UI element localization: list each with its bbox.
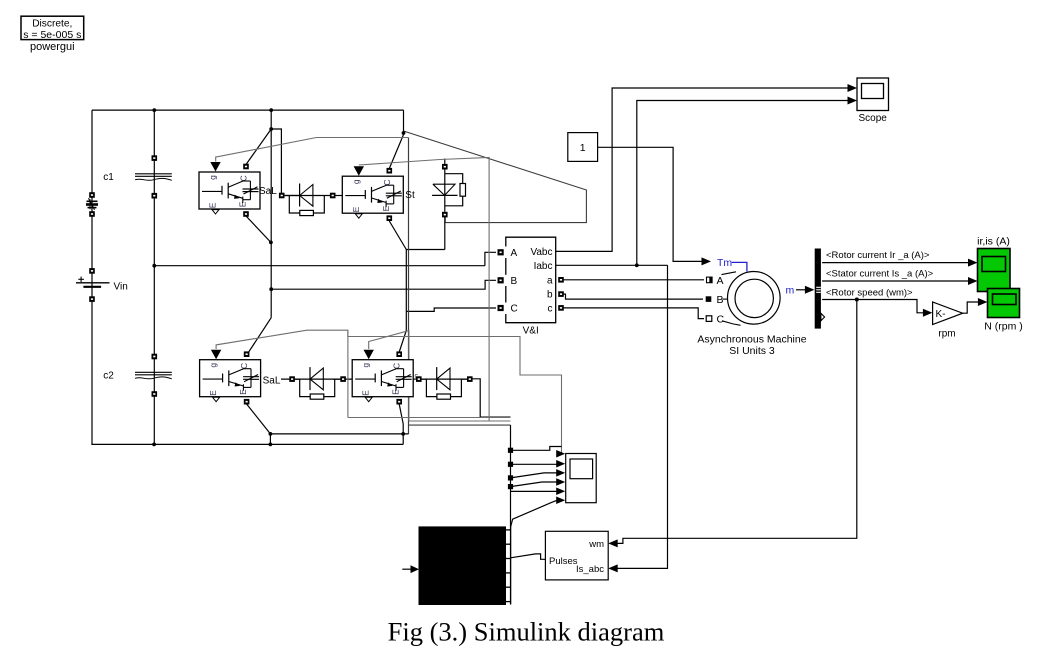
svg-text:Pulses: Pulses [549,556,578,567]
svg-text:c1: c1 [103,172,114,183]
svg-text:A: A [717,275,724,287]
svg-text:Scope: Scope [859,113,888,124]
svg-text:C: C [392,363,402,369]
svg-text:E: E [361,390,371,396]
svg-text:Iabc: Iabc [534,261,553,272]
svg-text:C: C [239,175,249,181]
svg-text:SaL: SaL [263,376,281,387]
svg-text:B: B [717,294,724,306]
svg-text:powergui: powergui [30,41,75,53]
svg-text:<Rotor current Ir _a (A)>: <Rotor current Ir _a (A)> [826,250,930,261]
svg-text:V&I: V&I [523,326,539,337]
svg-text:C: C [511,304,518,315]
svg-text:C: C [239,363,249,369]
svg-text:Vabc: Vabc [530,247,552,258]
svg-text:rpm: rpm [938,329,955,340]
svg-text:wm: wm [588,539,604,550]
svg-text:g: g [208,175,218,180]
svg-text:<Stator current Is _a (A)>: <Stator current Is _a (A)> [826,269,934,280]
svg-text:s = 5e-005 s: s = 5e-005 s [23,29,81,41]
svg-text:A: A [511,248,518,259]
svg-text:<Rotor speed (wm)>: <Rotor speed (wm)> [826,288,913,299]
svg-text:c2: c2 [103,371,114,382]
svg-text:E: E [208,202,218,208]
svg-text:K-: K- [936,309,946,320]
svg-text:E: E [351,206,361,212]
svg-text:C: C [382,179,392,185]
svg-text:St: St [405,190,415,201]
svg-text:Fig (3.) Simulink diagram: Fig (3.) Simulink diagram [388,617,665,647]
svg-text:m: m [786,285,795,297]
svg-text:Tm: Tm [717,257,732,269]
svg-text:c: c [548,304,553,315]
svg-text:B: B [511,276,518,287]
svg-text:N (rpm ): N (rpm ) [984,321,1023,333]
svg-text:g: g [208,363,218,368]
svg-text:a: a [547,275,553,286]
svg-text:SI Units 3: SI Units 3 [729,345,775,357]
svg-text:g: g [351,179,361,184]
svg-text:SaL: SaL [259,186,277,197]
svg-text:b: b [547,290,553,301]
svg-text:Asynchronous Machine: Asynchronous Machine [697,334,806,346]
svg-text:1: 1 [580,142,586,154]
svg-text:Is_abc: Is_abc [576,564,604,575]
svg-text:E: E [208,390,218,396]
svg-text:ir,is (A): ir,is (A) [977,236,1010,248]
svg-text:C: C [717,314,725,326]
svg-text:Vin: Vin [114,281,128,292]
svg-text:g: g [361,363,371,368]
